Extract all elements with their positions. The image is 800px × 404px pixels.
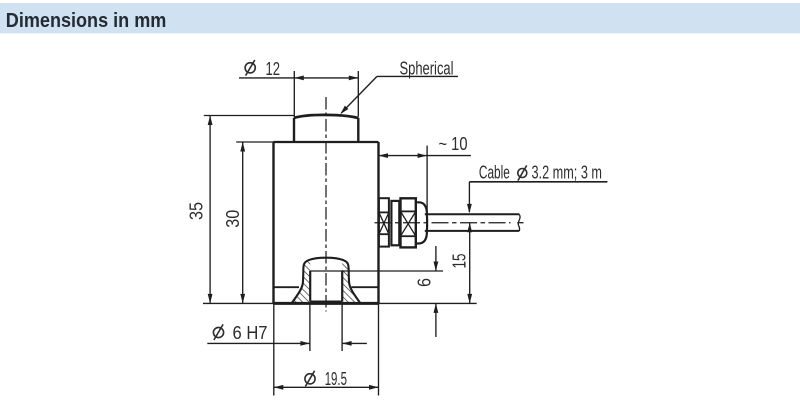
cable label leader xyxy=(469,181,607,183)
cable gland nut 1 xyxy=(379,198,389,246)
cable gland dome xyxy=(416,202,427,243)
cable gland nut 2 xyxy=(401,198,416,247)
svg-text:15: 15 xyxy=(450,254,470,269)
spherical leader xyxy=(377,75,458,77)
svg-text:Dimensions in mm: Dimensions in mm xyxy=(6,10,167,32)
dim phi6 H7 xyxy=(207,342,310,344)
boss outline xyxy=(292,258,360,303)
cable xyxy=(425,213,520,215)
boss hatch right wall xyxy=(342,260,360,303)
arrowheads xyxy=(208,76,472,390)
svg-text:35: 35 xyxy=(187,202,207,220)
cable break xyxy=(518,214,520,231)
dimension texts xyxy=(187,59,603,390)
inner floor lines xyxy=(274,286,300,288)
dim 15 xyxy=(469,223,471,304)
dim phi19.5 xyxy=(274,386,379,388)
top cap (spherical button) xyxy=(293,118,295,142)
bottom line extension right xyxy=(379,302,477,304)
dim 6 shafts xyxy=(435,246,437,271)
phi symbol for 12 xyxy=(245,60,255,76)
title bar xyxy=(0,3,800,33)
cable gland spacer ring xyxy=(391,201,399,245)
dim 30 xyxy=(242,142,244,303)
vertical centerline xyxy=(325,97,327,312)
svg-text:12: 12 xyxy=(266,59,281,79)
svg-text:19.5: 19.5 xyxy=(325,369,347,389)
dim ~10 xyxy=(379,155,471,157)
boss hatch left wall xyxy=(292,260,310,303)
svg-text:6: 6 xyxy=(415,278,435,287)
dim 35 xyxy=(209,116,211,304)
svg-text:Cable: Cable xyxy=(479,163,510,183)
threaded hole xyxy=(309,271,311,302)
hole top line extended right (6 dim extension) xyxy=(310,270,443,272)
main body outline xyxy=(274,141,379,143)
horizontal cable centerline xyxy=(375,222,511,224)
svg-text:~ 10: ~ 10 xyxy=(439,134,468,154)
svg-text:30: 30 xyxy=(223,210,243,228)
svg-text:6 H7: 6 H7 xyxy=(233,323,268,343)
svg-text:Spherical: Spherical xyxy=(400,59,454,79)
dim phi12: line and extensions xyxy=(239,77,358,79)
svg-text:3.2 mm; 3 m: 3.2 mm; 3 m xyxy=(532,163,603,183)
